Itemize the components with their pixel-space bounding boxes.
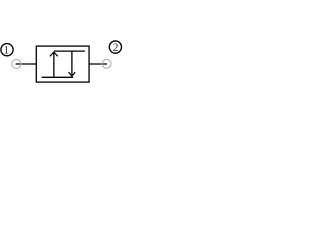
terminal node 2 (open circle) — [102, 59, 111, 68]
wire (box right edge to node 2) — [89, 63, 107, 65]
rising edge up arrow — [50, 52, 58, 77]
terminal node 1 (open circle) — [12, 59, 21, 68]
svg-text:2: 2 — [113, 42, 119, 54]
device box outline — [36, 46, 89, 82]
wire (node 1 to box left edge) — [16, 63, 37, 65]
port label 2 (circled) — [109, 41, 121, 54]
high level line — [54, 50, 85, 52]
svg-text:1: 1 — [4, 44, 10, 56]
low level line — [42, 76, 74, 78]
port label 1 (circled) — [1, 44, 13, 57]
falling edge down arrow — [69, 51, 76, 76]
